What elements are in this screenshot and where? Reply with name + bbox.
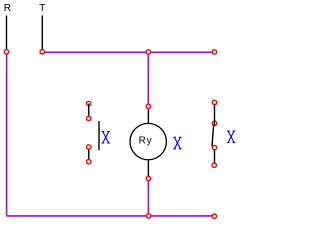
label X of coil Ry — [173, 137, 181, 149]
node: contact X1 pin 4 — [87, 160, 91, 164]
node: contact X2 pin 1 — [212, 100, 216, 104]
svg-text:Ry: Ry — [139, 136, 153, 147]
node: bottom rail right end — [212, 214, 216, 218]
node: contact X1 pin 3 — [87, 145, 91, 149]
contact X1 bottom lead — [88, 147, 90, 162]
label X of contact X1 — [102, 132, 110, 144]
wire: top rail (T) — [42, 51, 214, 53]
node: contact X1 pin 1 — [87, 101, 91, 105]
contact X2 closed blade — [212, 125, 214, 146]
node: T terminal — [40, 50, 44, 54]
wire: lead from T label — [41, 16, 43, 50]
contact X1 pin1 wire stub — [88, 104, 90, 107]
wire: left power rail (R) — [6, 52, 8, 216]
node: coil top terminal — [146, 104, 150, 108]
node: top rail junction — [146, 50, 150, 54]
node: contact X2 pin 3 — [212, 145, 216, 149]
node: contact X2 pin 2 — [212, 121, 216, 125]
wire: drop from top rail junction to coil — [147, 52, 149, 104]
svg-text:R: R — [4, 3, 11, 14]
relay coil U1 leads bottom — [147, 160, 149, 179]
wire: bottom rail — [7, 215, 215, 217]
relay coil Ry body — [130, 123, 166, 159]
contact X2 top lead — [214, 102, 216, 123]
wire: coil bottom to bottom rail — [147, 181, 149, 216]
node: bottom rail junction — [146, 214, 150, 218]
contact X1 open blade — [98, 121, 100, 150]
label X of contact X2 — [227, 131, 235, 143]
contact X1 top lead — [88, 104, 90, 119]
svg-text:T: T — [39, 3, 45, 14]
node: top rail right end — [212, 50, 216, 54]
node: contact X2 pin 4 — [212, 163, 216, 167]
contact X2 pin2 wire stub — [213, 121, 215, 127]
relay coil U1 leads top — [147, 107, 149, 124]
node: contact X1 pin 2 — [87, 116, 91, 120]
node: R terminal — [4, 50, 8, 54]
node: coil bottom terminal — [146, 176, 150, 180]
contact X2 bottom lead — [214, 148, 216, 165]
wire: lead from R label — [6, 16, 8, 50]
